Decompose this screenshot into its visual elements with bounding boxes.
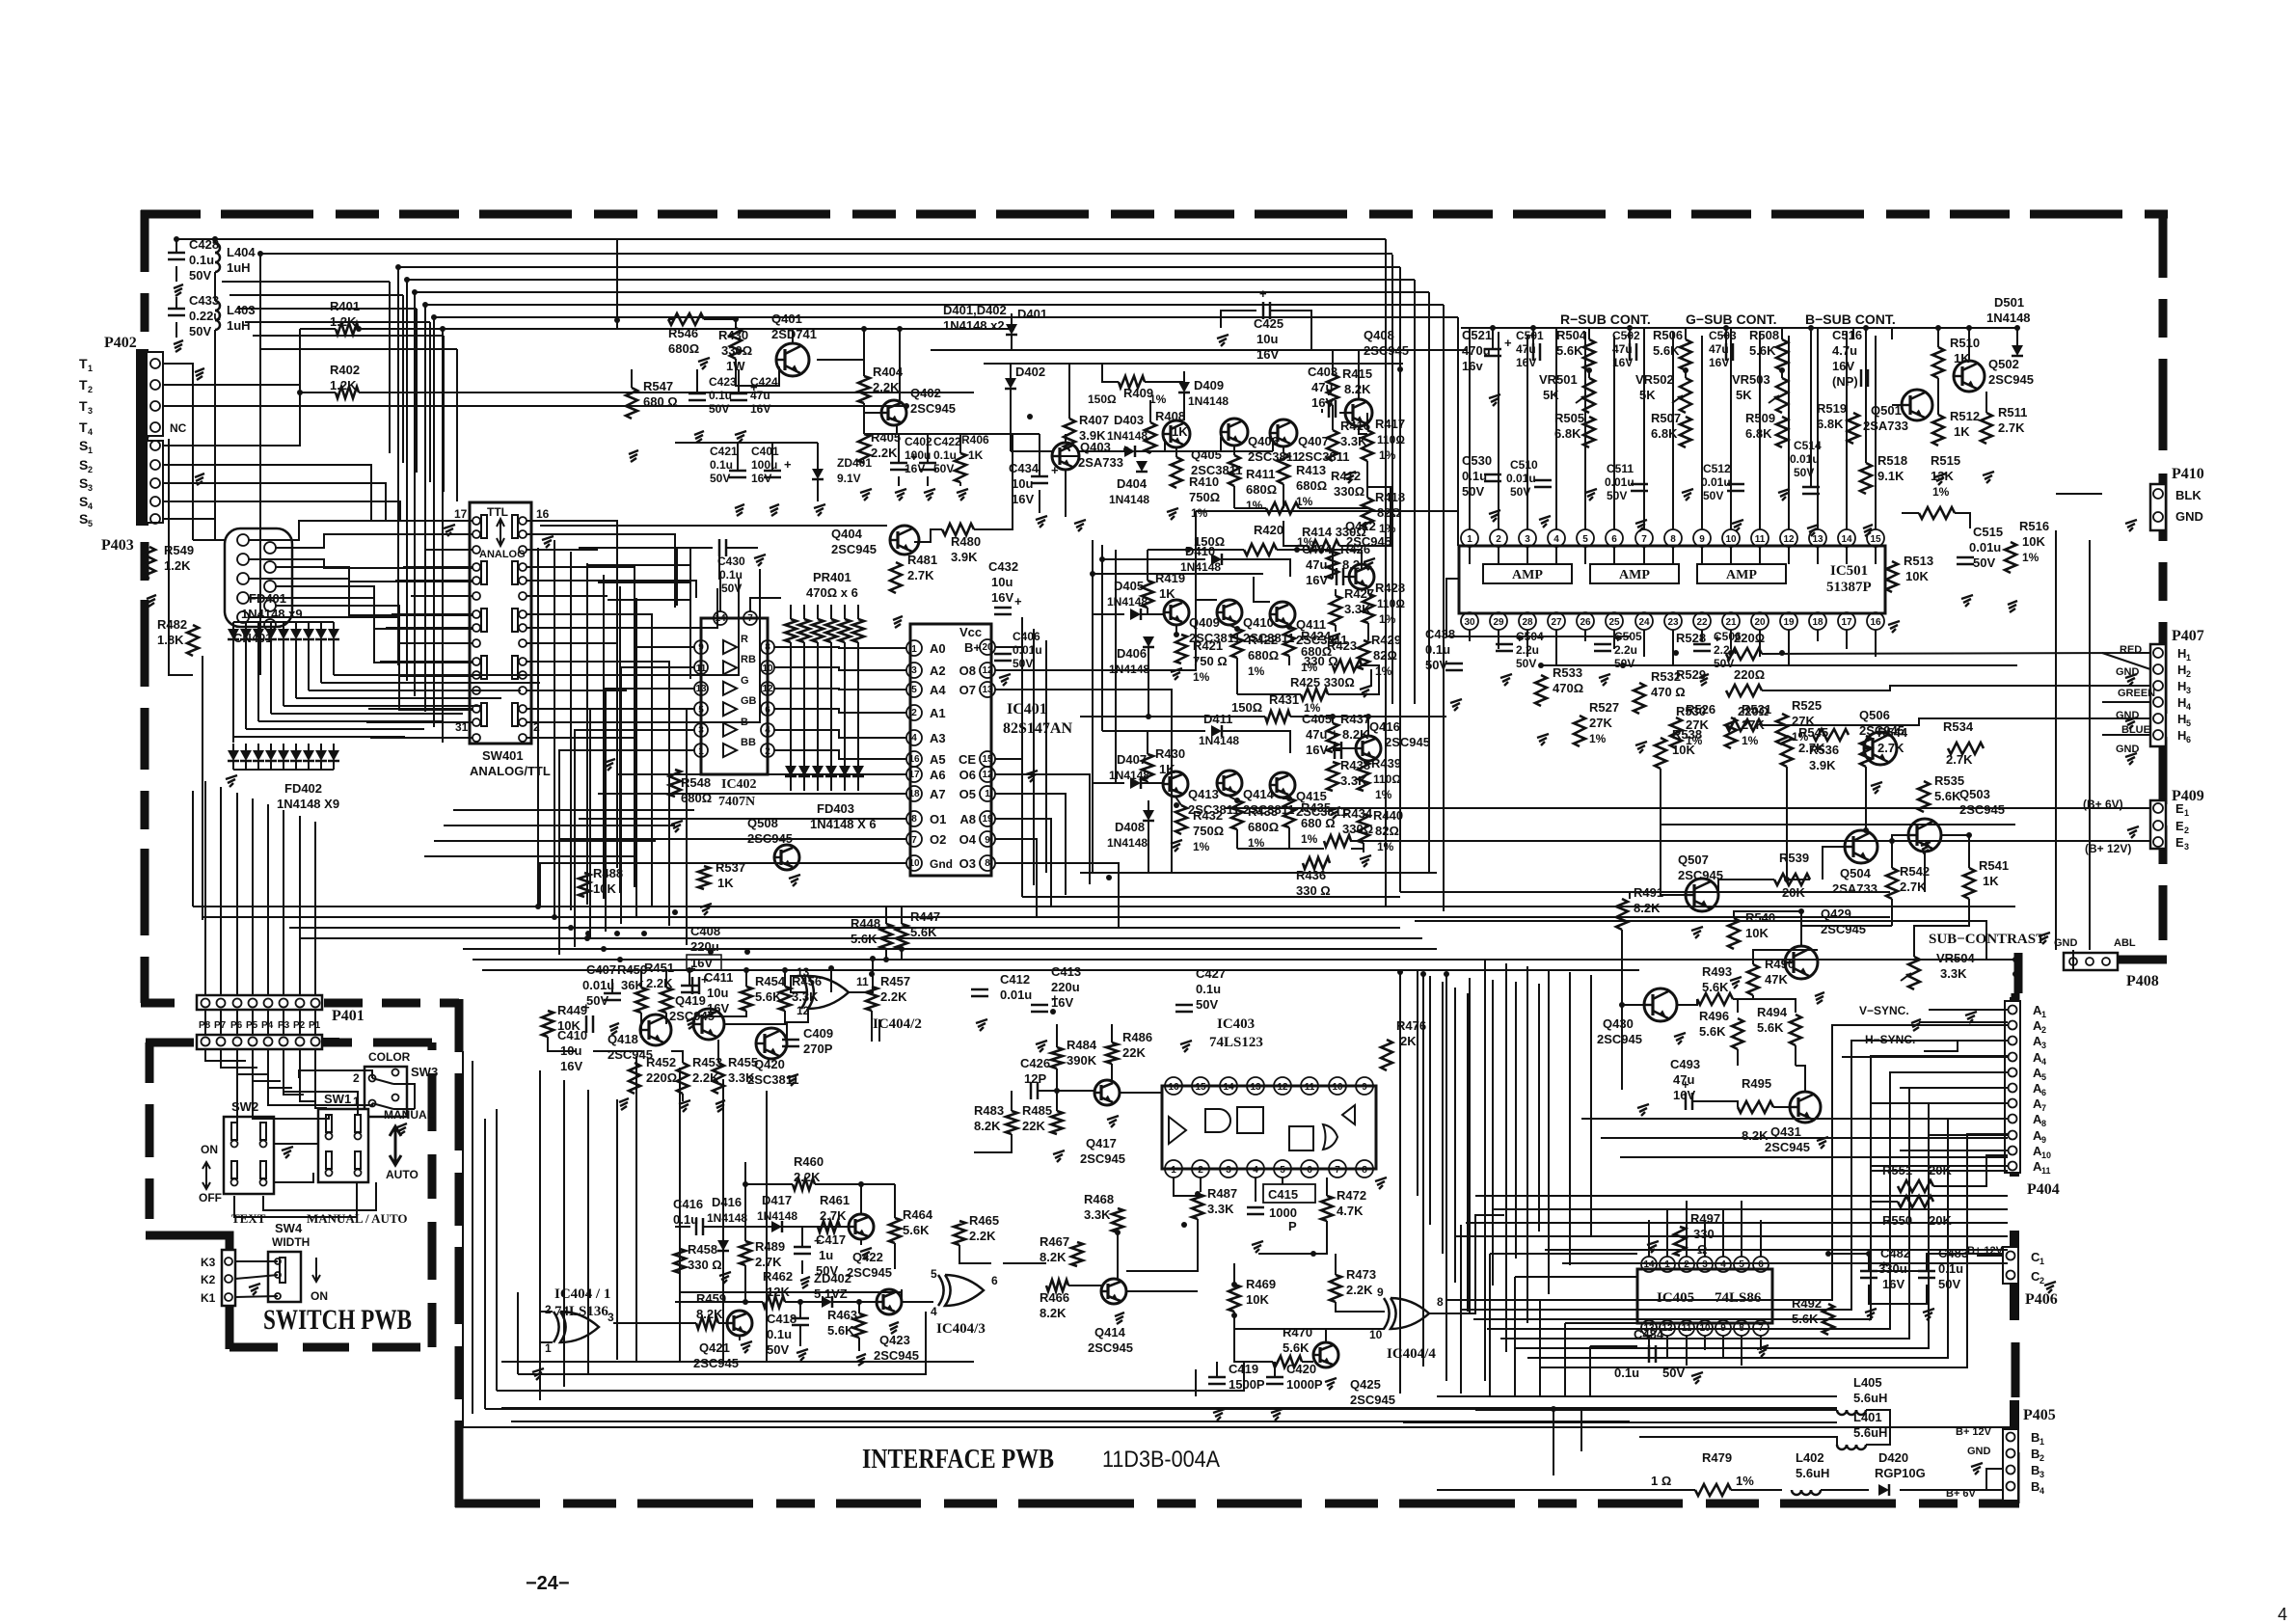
ground below R518 bbox=[1863, 525, 1873, 536]
wire bbox=[497, 1362, 1244, 1391]
svg-text:1%: 1% bbox=[1193, 840, 1210, 853]
wire bbox=[719, 556, 720, 611]
resistor R529 bbox=[1676, 667, 1765, 696]
ground below C506 bbox=[1699, 674, 1709, 686]
resistor R470 bbox=[1273, 1325, 1312, 1367]
svg-text:13: 13 bbox=[695, 684, 707, 694]
ground at P408 bbox=[2039, 933, 2050, 944]
resistor R414 bbox=[1302, 525, 1366, 552]
ground below C510 bbox=[1539, 516, 1551, 528]
wire bbox=[320, 648, 322, 683]
svg-text:R470: R470 bbox=[1283, 1325, 1312, 1340]
svg-text:1%: 1% bbox=[1191, 506, 1208, 520]
svg-text:R507: R507 bbox=[1651, 411, 1681, 425]
svg-text:Q407: Q407 bbox=[1298, 434, 1329, 448]
svg-text:C406: C406 bbox=[1013, 630, 1040, 643]
capacitor C404 bbox=[1302, 542, 1343, 587]
inductor L404 bbox=[215, 243, 256, 275]
svg-text:R454: R454 bbox=[755, 974, 786, 988]
svg-text:470 Ω: 470 Ω bbox=[1651, 685, 1686, 699]
ground at P405 bbox=[1971, 1463, 1983, 1475]
resistor R483 bbox=[974, 1103, 1017, 1134]
wire bbox=[995, 617, 1022, 647]
resistor R531 bbox=[1725, 702, 1771, 748]
wire bbox=[792, 329, 794, 343]
resistor R417 bbox=[1362, 417, 1405, 462]
wire bbox=[1639, 1437, 1837, 1445]
wire bbox=[257, 648, 259, 721]
wire bbox=[563, 1080, 565, 1387]
transistor Q416 bbox=[1356, 719, 1430, 761]
svg-text:R412: R412 bbox=[1331, 469, 1361, 483]
svg-text:47K: 47K bbox=[1765, 972, 1788, 987]
svg-text:5: 5 bbox=[1582, 534, 1588, 545]
wire bbox=[1484, 961, 1486, 1381]
wire bbox=[871, 1011, 873, 1042]
wire bbox=[1021, 617, 1023, 897]
capacitor C421 bbox=[710, 445, 746, 485]
label SUB-CONTRAST bbox=[1929, 932, 2045, 947]
svg-text:3: 3 bbox=[2186, 686, 2191, 695]
resistor R482 bbox=[157, 617, 199, 656]
ground below R511 bbox=[1983, 472, 1994, 483]
resistor R452 bbox=[629, 1055, 677, 1094]
wire bbox=[1590, 1345, 1637, 1347]
wire bbox=[1220, 437, 1222, 451]
wire bbox=[1361, 550, 1363, 564]
svg-text:R461: R461 bbox=[820, 1193, 850, 1207]
svg-text:R452: R452 bbox=[646, 1055, 676, 1069]
wire bbox=[407, 279, 1415, 281]
svg-text:R545: R545 bbox=[1798, 725, 1828, 740]
junction bbox=[568, 925, 574, 931]
resistor R496 bbox=[1699, 1009, 1743, 1049]
label D401 D402 bbox=[943, 303, 1007, 333]
wire bbox=[1730, 328, 1732, 529]
wire bbox=[1810, 328, 1812, 487]
svg-text:19: 19 bbox=[982, 814, 993, 825]
transistor Q402 bbox=[881, 386, 956, 425]
wire bbox=[517, 1292, 519, 1374]
svg-text:50V: 50V bbox=[1714, 657, 1734, 670]
svg-text:16V: 16V bbox=[1673, 1088, 1695, 1102]
potentiometer VR501 bbox=[1539, 372, 1595, 413]
svg-text:2SA733: 2SA733 bbox=[1078, 455, 1123, 470]
transistor Q408 bbox=[1345, 328, 1409, 426]
resistor array PR401 bbox=[785, 570, 864, 766]
wire bbox=[1796, 1066, 1805, 1092]
svg-text:R494: R494 bbox=[1757, 1005, 1788, 1019]
resistor R469 bbox=[1229, 1277, 1276, 1312]
wire bbox=[704, 319, 736, 328]
svg-text:4.7K: 4.7K bbox=[1337, 1204, 1364, 1218]
wire bbox=[176, 322, 177, 338]
xor gate IC404/1 bbox=[545, 1303, 614, 1355]
wire bbox=[424, 549, 473, 551]
svg-text:B: B bbox=[2031, 1447, 2039, 1461]
svg-text:R420: R420 bbox=[1254, 523, 1283, 537]
svg-text:16V: 16V bbox=[991, 590, 1013, 605]
label H-SYNC bbox=[1865, 1033, 1915, 1046]
svg-text:150Ω: 150Ω bbox=[1231, 700, 1262, 715]
wire bbox=[1648, 1220, 1650, 1257]
svg-text:Q419: Q419 bbox=[675, 993, 706, 1008]
wire bbox=[176, 239, 177, 253]
wire bbox=[1704, 1220, 1706, 1257]
svg-text:0.1u: 0.1u bbox=[933, 448, 957, 462]
svg-text:P: P bbox=[1288, 1219, 1297, 1233]
capacitor C418 bbox=[767, 1312, 809, 1357]
wire bbox=[1101, 545, 1103, 731]
label IC404/2 bbox=[873, 1016, 922, 1032]
wire bbox=[527, 567, 635, 887]
wire bbox=[1350, 840, 2150, 842]
wire bbox=[300, 328, 336, 330]
svg-text:R513: R513 bbox=[1904, 554, 1933, 568]
wire bbox=[1290, 716, 1446, 717]
wire bbox=[1875, 630, 1877, 657]
wire bbox=[1490, 1253, 1637, 1255]
transistor Q506 bbox=[1859, 708, 1904, 765]
svg-text:1N4148: 1N4148 bbox=[1986, 311, 2031, 325]
resistor R404 bbox=[858, 365, 904, 403]
wire bbox=[902, 1301, 933, 1303]
svg-text:5.6K: 5.6K bbox=[1699, 1024, 1726, 1039]
wire bbox=[1589, 1346, 1591, 1396]
resistor R516 bbox=[2005, 519, 2049, 573]
svg-text:16V: 16V bbox=[560, 1059, 582, 1073]
wire bbox=[774, 709, 906, 713]
wire bbox=[1461, 327, 2017, 329]
junction bbox=[1195, 1191, 1201, 1197]
junction bbox=[1234, 626, 1240, 632]
label SW401 bbox=[470, 748, 551, 778]
wire bbox=[1274, 1362, 1276, 1377]
svg-text:P402: P402 bbox=[104, 335, 137, 351]
svg-text:0.01u: 0.01u bbox=[1000, 988, 1032, 1002]
svg-text:1uH: 1uH bbox=[227, 318, 251, 333]
ground below VR504 bbox=[1911, 1019, 1921, 1031]
wire bbox=[2102, 653, 2150, 669]
wire bbox=[1445, 976, 1447, 1340]
title 11D3B-004A bbox=[1102, 1447, 1220, 1473]
resistor R436 bbox=[1296, 857, 1331, 898]
wire bbox=[2056, 493, 2102, 495]
svg-text:R541: R541 bbox=[1979, 858, 2009, 873]
svg-text:1: 1 bbox=[911, 644, 917, 655]
svg-text:680Ω: 680Ω bbox=[1248, 820, 1279, 834]
ground below C482 bbox=[1865, 1309, 1877, 1320]
wire bbox=[901, 907, 903, 924]
svg-text:3.3K: 3.3K bbox=[1084, 1207, 1111, 1222]
main PWB dashed border bottom bbox=[455, 1500, 2019, 1508]
svg-text:6: 6 bbox=[2041, 1088, 2046, 1097]
resistor R402 bbox=[330, 363, 360, 398]
svg-text:1%: 1% bbox=[1379, 612, 1396, 626]
svg-text:Vcc: Vcc bbox=[959, 625, 982, 639]
connector P404 bbox=[2005, 997, 2060, 1198]
svg-text:1: 1 bbox=[88, 446, 93, 455]
svg-text:R413: R413 bbox=[1296, 463, 1326, 477]
svg-text:3: 3 bbox=[698, 725, 704, 736]
wire bbox=[496, 1109, 498, 1391]
svg-text:S: S bbox=[79, 457, 88, 473]
svg-text:11: 11 bbox=[1305, 1082, 1315, 1093]
resistor R549 bbox=[144, 543, 194, 579]
resistor R413 bbox=[1278, 453, 1327, 508]
connector P402 label bbox=[104, 335, 137, 351]
wire bbox=[299, 1070, 372, 1078]
svg-text:RB: RB bbox=[741, 654, 756, 665]
wire bbox=[995, 774, 1090, 884]
svg-text:5: 5 bbox=[1739, 1259, 1744, 1270]
svg-text:2SC945: 2SC945 bbox=[910, 401, 956, 416]
svg-text:5.6K: 5.6K bbox=[1653, 343, 1680, 358]
wire bbox=[1445, 1210, 1447, 1381]
svg-text:50V: 50V bbox=[1973, 555, 1995, 570]
wire bbox=[193, 539, 225, 541]
svg-text:R473: R473 bbox=[1346, 1267, 1376, 1282]
wire bbox=[1195, 1369, 1197, 1396]
svg-text:2SC945: 2SC945 bbox=[1597, 1032, 1642, 1046]
wire bbox=[1933, 1155, 2008, 1186]
svg-text:2.7K: 2.7K bbox=[907, 568, 934, 582]
svg-text:C413: C413 bbox=[1051, 964, 1081, 979]
wire bbox=[263, 1182, 376, 1210]
resistor R466 bbox=[1040, 1280, 1069, 1320]
svg-text:D401: D401 bbox=[1017, 307, 1047, 321]
svg-text:6: 6 bbox=[1758, 1259, 1764, 1270]
diode D416 bbox=[707, 1195, 747, 1251]
resistor R456 bbox=[779, 974, 822, 1011]
svg-text:20: 20 bbox=[982, 642, 993, 653]
svg-text:1%: 1% bbox=[1246, 499, 1263, 512]
svg-text:+: + bbox=[1259, 286, 1267, 301]
junction bbox=[297, 390, 303, 395]
svg-text:C416: C416 bbox=[673, 1197, 703, 1211]
wire bbox=[1011, 1091, 1013, 1111]
transistor Q501 bbox=[1863, 390, 1932, 433]
junction bbox=[861, 326, 867, 332]
junction bbox=[395, 264, 401, 270]
wire bbox=[1555, 328, 1557, 529]
svg-text:5: 5 bbox=[911, 685, 917, 695]
svg-text:9: 9 bbox=[1699, 534, 1705, 545]
wire bbox=[220, 787, 222, 995]
svg-text:A7: A7 bbox=[930, 787, 946, 801]
capacitor C413 bbox=[1031, 964, 1081, 1012]
svg-text:680Ω: 680Ω bbox=[668, 341, 699, 356]
resistor R542 bbox=[1886, 864, 1930, 899]
junction bbox=[1231, 1313, 1237, 1318]
svg-text:680Ω: 680Ω bbox=[1246, 482, 1277, 497]
wire bbox=[750, 598, 781, 611]
svg-text:2SC945: 2SC945 bbox=[874, 1348, 919, 1363]
svg-text:2: 2 bbox=[765, 746, 770, 757]
svg-text:2SA733: 2SA733 bbox=[1863, 419, 1908, 433]
ground below R537 bbox=[700, 904, 712, 915]
svg-text:A6: A6 bbox=[930, 768, 946, 782]
wire bbox=[864, 412, 881, 414]
resistor R550 bbox=[1882, 1196, 1952, 1228]
svg-text:4: 4 bbox=[765, 725, 770, 736]
wire bbox=[1165, 450, 1273, 452]
resistor R448 bbox=[851, 916, 892, 949]
svg-text:R415: R415 bbox=[1342, 366, 1372, 381]
junction bbox=[1551, 1406, 1556, 1412]
wire bbox=[1148, 647, 1149, 717]
junction bbox=[1866, 1251, 1872, 1257]
diode D501 bbox=[1986, 295, 2031, 356]
ground below Q431 bbox=[1817, 1137, 1828, 1149]
wire bbox=[1601, 1137, 2008, 1139]
wire bbox=[1532, 328, 1534, 339]
wire bbox=[1810, 328, 1812, 339]
wire bbox=[899, 329, 901, 400]
wire bbox=[774, 750, 906, 759]
svg-text:NC: NC bbox=[170, 421, 187, 435]
svg-text:5: 5 bbox=[1280, 1165, 1285, 1176]
svg-text:10u: 10u bbox=[991, 575, 1013, 589]
wire bbox=[1760, 1220, 1762, 1257]
junction bbox=[614, 931, 620, 936]
wire bbox=[1079, 450, 1124, 452]
svg-text:750Ω: 750Ω bbox=[1189, 490, 1220, 504]
svg-text:2.2K: 2.2K bbox=[1346, 1283, 1373, 1297]
wire bbox=[1686, 1201, 1688, 1257]
junction bbox=[1798, 908, 1804, 914]
resistor R434 bbox=[1324, 806, 1373, 847]
junction bbox=[1863, 827, 1869, 833]
svg-text:R406: R406 bbox=[961, 433, 989, 447]
wire bbox=[1399, 267, 1401, 892]
svg-text:C409: C409 bbox=[803, 1026, 833, 1041]
wire bbox=[1493, 1208, 2008, 1210]
wire bbox=[1968, 328, 1970, 361]
svg-text:R508: R508 bbox=[1749, 328, 1779, 342]
svg-text:1: 1 bbox=[1664, 1259, 1670, 1270]
wire bbox=[252, 1010, 254, 1035]
wire bbox=[1466, 1222, 1637, 1224]
svg-text:C422: C422 bbox=[933, 435, 961, 448]
wire bbox=[295, 648, 297, 698]
svg-text:R425 330Ω: R425 330Ω bbox=[1290, 675, 1355, 690]
wire bbox=[1234, 1312, 1273, 1362]
svg-text:5K: 5K bbox=[1639, 388, 1656, 402]
svg-text:330: 330 bbox=[1693, 1227, 1715, 1241]
wire bbox=[230, 294, 403, 296]
junction bbox=[1286, 796, 1292, 801]
wire bbox=[817, 359, 864, 361]
label MANUAL arrow bbox=[384, 1108, 434, 1181]
wire bbox=[1781, 370, 1783, 378]
wire bbox=[1302, 1361, 1313, 1363]
svg-text:R488: R488 bbox=[593, 866, 623, 880]
svg-text:10u: 10u bbox=[1256, 332, 1278, 346]
svg-text:22: 22 bbox=[1696, 617, 1708, 628]
wire bbox=[1141, 613, 1164, 615]
svg-text:10K: 10K bbox=[2022, 534, 2045, 549]
svg-text:5.1VZ: 5.1VZ bbox=[814, 1286, 848, 1301]
wire bbox=[1299, 507, 1367, 509]
svg-text:0.01u: 0.01u bbox=[1605, 475, 1634, 489]
resistor R433 bbox=[1231, 800, 1279, 850]
ground at Q429 bbox=[1815, 992, 1824, 1004]
wire bbox=[1475, 1195, 2008, 1197]
wire bbox=[1403, 1421, 1837, 1423]
wire bbox=[1234, 1312, 1385, 1329]
wire bbox=[1492, 328, 1494, 339]
wire bbox=[260, 348, 457, 350]
wire bbox=[559, 750, 694, 955]
svg-text:SW401: SW401 bbox=[482, 748, 524, 763]
zener ZD402 bbox=[814, 1271, 851, 1308]
diode array FD402 bbox=[228, 744, 339, 811]
page number 4 bbox=[2278, 1605, 2287, 1624]
junction bbox=[1966, 832, 1972, 838]
junction bbox=[2012, 957, 2018, 962]
wire bbox=[1725, 328, 1727, 339]
wire bbox=[2089, 540, 2091, 950]
wire K3 SW4 bbox=[235, 1261, 278, 1297]
svg-text:R485: R485 bbox=[1022, 1103, 1052, 1118]
svg-text:0.01u: 0.01u bbox=[1701, 475, 1731, 489]
svg-text:16V: 16V bbox=[1051, 995, 1073, 1010]
svg-text:A1: A1 bbox=[930, 706, 946, 720]
svg-text:330Ω: 330Ω bbox=[1334, 484, 1364, 499]
resistor R454 bbox=[741, 974, 786, 1011]
wire bbox=[640, 1013, 642, 1038]
wire bbox=[284, 705, 482, 707]
svg-text:R436: R436 bbox=[1296, 868, 1326, 882]
wire bbox=[214, 330, 216, 540]
wire bbox=[1622, 930, 1644, 1005]
wire bbox=[548, 1037, 577, 1051]
svg-text:R465: R465 bbox=[969, 1213, 999, 1228]
wire bbox=[314, 1010, 316, 1035]
svg-text:R548: R548 bbox=[681, 775, 711, 790]
junction bbox=[1627, 325, 1633, 331]
svg-text:50V: 50V bbox=[1516, 657, 1536, 670]
resistor R447 bbox=[896, 909, 940, 949]
transistor Q503 bbox=[1908, 787, 2005, 852]
svg-text:16V: 16V bbox=[750, 402, 770, 416]
svg-text:10: 10 bbox=[1725, 534, 1737, 545]
wire bbox=[1196, 510, 1458, 512]
wire bbox=[1475, 1409, 1837, 1411]
svg-text:O8: O8 bbox=[959, 663, 976, 678]
svg-text:17: 17 bbox=[454, 507, 468, 521]
svg-text:1N4148: 1N4148 bbox=[757, 1209, 797, 1223]
svg-text:1%: 1% bbox=[1379, 448, 1396, 462]
junction bbox=[1784, 877, 1790, 882]
wire bbox=[1282, 1177, 1283, 1184]
wire bbox=[204, 781, 206, 995]
wire bbox=[679, 1068, 681, 1362]
wire bbox=[1643, 630, 1645, 657]
svg-text:10: 10 bbox=[908, 858, 920, 869]
capacitor C505 bbox=[1594, 630, 1642, 670]
svg-text:10: 10 bbox=[1332, 1082, 1343, 1093]
ground below SW3 bbox=[397, 1123, 407, 1135]
wire bbox=[878, 1019, 880, 1042]
svg-text:5.6uH: 5.6uH bbox=[1796, 1466, 1829, 1480]
svg-text:R544: R544 bbox=[1877, 725, 1908, 740]
svg-text:220u: 220u bbox=[1051, 980, 1080, 994]
wire bbox=[1773, 1106, 1790, 1108]
junction bbox=[1286, 624, 1292, 630]
transistor Q406 bbox=[1221, 419, 1300, 464]
